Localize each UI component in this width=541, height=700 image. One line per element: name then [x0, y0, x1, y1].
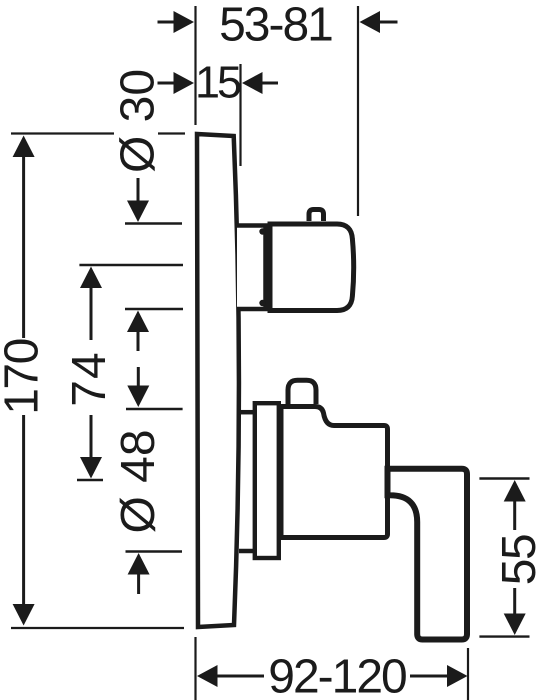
dimension 15 : extension line at plate front	[239, 64, 241, 166]
dimension 170 : top arrow	[13, 136, 35, 339]
svg-text:15: 15	[195, 57, 241, 108]
dimension 55 : bottom arrow pointing down	[504, 588, 526, 635]
svg-text:53-81: 53-81	[219, 0, 332, 52]
shut-off lever handle	[388, 469, 468, 640]
dimension 74 : bottom arrow	[80, 415, 102, 479]
dimension Ø30 : upper arrow pointing down	[127, 178, 149, 222]
svg-text:92-120: 92-120	[268, 651, 406, 700]
lower valve neck stubs (Ø48 cylinder)	[239, 412, 255, 551]
dimension 74 : top arrow	[80, 267, 102, 341]
thermostat handle body	[270, 224, 354, 311]
sleeve bead nubs	[259, 228, 265, 306]
dimension 55 : bottom extent line (lever bottom)	[479, 635, 529, 637]
svg-text:Ø 30: Ø 30	[112, 69, 165, 173]
lower valve body	[281, 407, 388, 538]
dimension 55 : top extent line (valve axis)	[479, 477, 529, 479]
thermostat sleeve between plate and handle	[237, 226, 266, 310]
svg-text:74: 74	[63, 351, 116, 406]
dimension 92-120 : right arrow pointing right	[410, 665, 468, 687]
wall plate (escutcheon, side view)	[197, 134, 239, 627]
small tab on thermostat handle top	[309, 210, 324, 222]
dimension Ø48 : bottom arrow pointing up	[128, 553, 150, 594]
svg-text:170: 170	[0, 339, 49, 415]
lower valve rosette (skirt, side view)	[255, 403, 279, 558]
dimension 53-81 : right arrow	[360, 11, 398, 33]
svg-text:Ø 48: Ø 48	[112, 429, 165, 533]
dimension 53-81 : left arrow	[158, 11, 195, 33]
dimension 74 : bottom extent tick (valve axis)	[77, 479, 103, 481]
dimension 74 : top extent line (thermostat axis)	[79, 264, 183, 266]
dimension 170 : bottom extension line (plate bottom)	[11, 627, 184, 629]
dimension 92-120 : left extension line	[194, 637, 196, 700]
dimension Ø30 : bottom extent line (handle bottom)	[125, 308, 183, 310]
dimension 53-81 : extension line at wall (shared with 15)	[194, 6, 196, 125]
dimension 15 : left arrow	[158, 72, 195, 94]
cap button on lower valve	[288, 380, 316, 404]
svg-text:55: 55	[493, 535, 541, 585]
dimension Ø48 : bottom extent line	[126, 550, 183, 552]
dimension 92-120 : left arrow pointing left	[197, 665, 264, 687]
dimension Ø30 : lower arrow pointing up + shared tail with Ø48 upper arrow	[127, 311, 149, 408]
dimension 170 : top extension line (plate top)	[11, 132, 185, 134]
dimension 92-120 : right extension line	[467, 648, 469, 700]
dimension 55 : top arrow pointing up	[504, 480, 526, 530]
dimension 53-81 : extension line at handle front	[357, 6, 359, 216]
dimension 15 : right arrow	[242, 72, 278, 94]
dimension 170 : bottom arrow	[13, 415, 35, 626]
dimension Ø48 : top extent line	[126, 408, 183, 410]
dimension Ø30 : top extent line (handle top)	[125, 222, 182, 224]
